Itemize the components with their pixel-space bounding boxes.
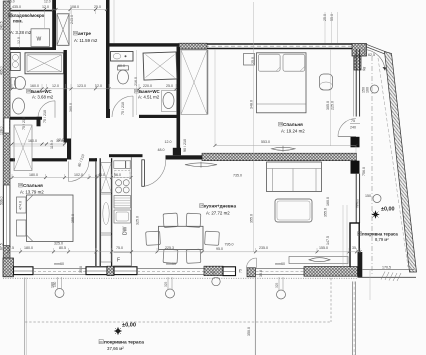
- bath1 step wall: [37, 117, 41, 127]
- svg-text:62,5: 62,5: [368, 53, 375, 57]
- svg-text:кухня+дневна: кухня+дневна: [204, 204, 236, 209]
- svg-text:60.0: 60.0: [118, 64, 125, 68]
- wall: hatched segment over bath2/bedroom1: [179, 43, 207, 49]
- svg-text:складово/мокро: складово/мокро: [9, 13, 45, 18]
- window 2: [86, 267, 107, 275]
- svg-text:48.0: 48.0: [158, 148, 165, 152]
- dining table: [146, 213, 220, 263]
- svg-text:355.0: 355.0: [71, 214, 75, 223]
- wall: left outer hatched: [3, 1, 10, 277]
- svg-text:325.0: 325.0: [54, 242, 63, 246]
- svg-text:75: 75: [239, 269, 243, 273]
- room number tags: [8, 13, 361, 344]
- svg-text:170,5: 170,5: [382, 266, 391, 270]
- label: terrace bottom: [104, 323, 144, 352]
- svg-text:98: 98: [362, 67, 367, 72]
- bottom wall band y267-276: [3, 258, 358, 278]
- svg-text:A: 11.59 m2: A: 11.59 m2: [74, 38, 98, 43]
- svg-text:08: 08: [358, 232, 362, 236]
- svg-text:243.0: 243.0: [70, 15, 74, 24]
- kitchen counter: [114, 157, 132, 266]
- bedroom1: bed: [257, 53, 307, 113]
- north arrow right: [371, 210, 379, 218]
- svg-text:A: 19.24 m2: A: 19.24 m2: [281, 129, 305, 134]
- svg-text:25.0: 25.0: [94, 5, 101, 9]
- wall: bedroom1 top (double line with dashed core): [179, 44, 352, 49]
- dashed projection on lower terrace: [25, 278, 331, 322]
- label: storage: [9, 13, 45, 35]
- svg-text:756.0: 756.0: [362, 167, 366, 176]
- svg-text:150: 150: [365, 194, 371, 198]
- svg-text:Баня+WC: Баня+WC: [139, 89, 161, 94]
- svg-text:235.0: 235.0: [259, 246, 268, 250]
- svg-text:35.0: 35.0: [259, 270, 263, 277]
- svg-text:305.0: 305.0: [326, 101, 330, 110]
- bedroom2: bed: [27, 195, 74, 242]
- hatched pier bottom-left: [3, 258, 14, 277]
- svg-text:35: 35: [352, 246, 356, 250]
- svg-text:46.0: 46.0: [98, 173, 105, 177]
- label: bedroom1: [281, 122, 305, 134]
- svg-text:25.0: 25.0: [166, 84, 173, 88]
- wall: living top kitchen-side: [109, 154, 143, 157]
- bath1: tub oval: [13, 98, 25, 114]
- svg-text:80.5: 80.5: [59, 246, 66, 250]
- svg-text:75 / 210: 75 / 210: [121, 102, 125, 115]
- wall: bath2 bottom: [139, 115, 180, 118]
- wall: bath2 left lower stub: [106, 109, 110, 118]
- rotated text left outer edge: [0, 21, 4, 250]
- svg-text:A: 13.79 m2: A: 13.79 m2: [20, 190, 44, 195]
- sofa: [267, 162, 322, 192]
- svg-text:240: 240: [350, 126, 356, 130]
- bedroom1: lamp lens on wall: [272, 146, 296, 152]
- dashed roof lines on right terrace: [372, 56, 408, 276]
- svg-text:75 / 210: 75 / 210: [43, 110, 47, 123]
- svg-text:07: 07: [9, 13, 13, 17]
- svg-text:mm60: mm60: [275, 262, 285, 266]
- svg-text:mm60: mm60: [54, 262, 64, 266]
- svg-text:95.0: 95.0: [216, 247, 223, 251]
- svg-text:795.0: 795.0: [225, 243, 234, 247]
- shaft X-box in antre: [57, 14, 69, 46]
- svg-text:F: F: [117, 258, 120, 264]
- hatched pier 3: [204, 266, 223, 275]
- living door from hall: leaf + arc: [142, 160, 166, 187]
- svg-text:147.5: 147.5: [326, 236, 330, 245]
- hatched pier 2: [107, 266, 114, 275]
- svg-text:покривна тераса: покривна тераса: [362, 232, 398, 237]
- svg-text:90 / 210: 90 / 210: [183, 139, 187, 152]
- wall: storage bottom: [10, 47, 56, 50]
- svg-text:15.0: 15.0: [79, 266, 83, 273]
- svg-text:160.0: 160.0: [28, 139, 37, 143]
- wall: living/bedroom1 hatched band: [202, 153, 357, 161]
- svg-text:119.0: 119.0: [50, 140, 54, 149]
- svg-text:Спальня: Спальня: [23, 183, 43, 188]
- svg-text:mm60: mm60: [356, 199, 360, 208]
- bath2: door arc: [112, 96, 133, 117]
- svg-text:180: 180: [53, 281, 57, 287]
- railing 2: [137, 268, 204, 274]
- extension lines from dim rows: [8, 10, 360, 254]
- svg-text:474.0: 474.0: [19, 201, 23, 210]
- bath2: wc right: [162, 91, 177, 112]
- lower terrace boundary lines: [25, 277, 356, 355]
- bath2: shower: [143, 52, 177, 80]
- svg-text:75.0: 75.0: [116, 246, 123, 250]
- ticks row y251.8: [7, 250, 362, 253]
- svg-text:03: 03: [279, 122, 283, 126]
- wall: living top step near door: [166, 155, 203, 159]
- svg-text:12.0: 12.0: [95, 84, 102, 88]
- bath1: vanity: [11, 53, 21, 71]
- wall: bath1 bottom + step: [10, 117, 42, 120]
- svg-text:05: 05: [27, 89, 31, 93]
- long construction thin lines: [12, 0, 370, 300]
- hood dashed: [115, 171, 131, 178]
- bedroom2: door arc: [69, 161, 90, 181]
- upper terrace bottom edge: [359, 269, 416, 281]
- svg-text:01: 01: [74, 31, 78, 35]
- terrace door in living right wall: [350, 223, 359, 268]
- svg-text:325.0: 325.0: [136, 216, 140, 225]
- top slanted edge: [365, 44, 386, 54]
- svg-text:360.0: 360.0: [69, 103, 73, 112]
- wall: bedroom2 top with door opening: [10, 139, 97, 162]
- north arrow bottom: [114, 327, 122, 335]
- svg-text:225.0: 225.0: [331, 101, 335, 110]
- svg-text:25.0: 25.0: [251, 57, 255, 64]
- label: bedroom2: [20, 183, 44, 195]
- svg-text:355.0: 355.0: [324, 208, 328, 217]
- wall: bath2 top: [110, 43, 180, 46]
- svg-text:160.0: 160.0: [30, 84, 39, 88]
- window 3: [114, 267, 137, 275]
- svg-text:±0,00: ±0,00: [122, 323, 136, 329]
- dotted ground strip under bottom wall: [3, 277, 358, 279]
- burners: [116, 180, 122, 186]
- wall: kitchen/closet divider: [111, 158, 113, 266]
- svg-text:37,66 м²: 37,66 м²: [107, 346, 124, 351]
- svg-text:75: 75: [351, 119, 355, 123]
- columns circles: [371, 85, 379, 93]
- svg-text:350.0: 350.0: [247, 327, 251, 336]
- bedroom2: nightstands: [17, 197, 27, 213]
- svg-text:180.0: 180.0: [24, 246, 33, 250]
- svg-text:Баня+WC: Баня+WC: [31, 89, 53, 94]
- bedroom1: nightstand round right: [320, 74, 333, 90]
- dimension tick marks: [7, 8, 362, 253]
- wall: right wall piers (black): [351, 137, 360, 148]
- bath1: shower: [25, 53, 64, 74]
- hatched pier 4 small: [247, 268, 256, 277]
- svg-text:55.0: 55.0: [330, 14, 334, 21]
- svg-text:536.0: 536.0: [0, 196, 4, 205]
- svg-text:160.0: 160.0: [326, 197, 330, 206]
- svg-text:05.0: 05.0: [8, 0, 15, 4]
- ticks row y88.8: [11, 87, 178, 90]
- bath2: vanity with sink: [111, 52, 134, 62]
- terrace door arc bottom wall: [247, 258, 257, 268]
- wall: bedroom2 right (double): [96, 158, 100, 266]
- label: kitchen-living: [204, 204, 236, 216]
- sink basin: [114, 210, 131, 223]
- storage: washing machine: [31, 29, 50, 47]
- wall: bottom-right corner: [358, 252, 363, 278]
- ticks bedroom1 553 row: [214, 144, 358, 147]
- svg-text:DW: DW: [123, 226, 129, 235]
- bedroom1: nightstand left: [244, 54, 255, 66]
- svg-text:220.0: 220.0: [143, 84, 152, 88]
- downpipe stems and labels: [53, 270, 283, 290]
- svg-text:Спальня: Спальня: [283, 122, 303, 127]
- ticks top row y9.5: [9, 8, 109, 11]
- svg-text:67.5: 67.5: [0, 243, 4, 250]
- closet column: X box: [101, 163, 111, 193]
- svg-text:пом.: пом.: [13, 19, 23, 24]
- svg-text:12.0: 12.0: [17, 37, 21, 44]
- bath2: toilet: [118, 66, 129, 84]
- window 1: [14, 267, 34, 275]
- svg-text:антре: антре: [78, 31, 91, 36]
- svg-text:8,79 м²: 8,79 м²: [375, 237, 389, 242]
- bath1: door arc: [38, 101, 55, 118]
- window 4 / door: [223, 267, 236, 276]
- right slanted outer wall band: [365, 44, 417, 272]
- bath1: toilet: [11, 77, 26, 90]
- living room: vent lens on wall: [185, 162, 217, 168]
- svg-text:12.0: 12.0: [44, 0, 51, 4]
- top-right terrace door arc with arrow: [364, 50, 386, 71]
- top edge cut text fragments: [8, 0, 51, 4]
- ticks row y144: [11, 143, 67, 146]
- svg-text:56.0: 56.0: [114, 173, 121, 177]
- ticks row y177.6: [11, 176, 133, 179]
- svg-text:325: 325: [275, 282, 279, 288]
- svg-text:325: 325: [164, 281, 168, 287]
- label: antre: [74, 31, 98, 43]
- svg-text:216.0: 216.0: [134, 77, 138, 86]
- svg-text:355.0: 355.0: [250, 214, 254, 223]
- label: bath1: [31, 89, 54, 100]
- tv bench: [289, 257, 348, 264]
- label: bath2: [138, 89, 161, 100]
- bedroom1: closet X: [181, 50, 208, 115]
- sink top box: [114, 161, 126, 169]
- svg-text:12.0: 12.0: [52, 84, 59, 88]
- svg-text:12.0: 12.0: [57, 138, 64, 142]
- svg-text:W: W: [37, 37, 42, 43]
- bedroom1: door arc right wall: [338, 119, 356, 137]
- svg-text:75 / 210: 75 / 210: [22, 117, 26, 130]
- wall: storage top: [10, 10, 56, 12]
- wall: bedroom1 right (thin double): [353, 49, 359, 223]
- svg-text:435.0: 435.0: [12, 5, 21, 9]
- svg-text:покривна тераса: покривна тераса: [104, 341, 144, 346]
- svg-text:150: 150: [212, 270, 216, 276]
- railing 1: [33, 268, 86, 274]
- svg-text:155.0: 155.0: [319, 246, 328, 250]
- svg-text:735.0: 735.0: [233, 174, 242, 178]
- svg-text:04: 04: [200, 204, 204, 208]
- svg-text:A: 27.72 m2: A: 27.72 m2: [206, 211, 230, 216]
- svg-text:348.0: 348.0: [250, 100, 254, 109]
- svg-text:±0,00: ±0,00: [381, 207, 394, 213]
- svg-text:09: 09: [99, 340, 103, 344]
- wall: storage right / antre left: [52, 0, 56, 50]
- svg-text:06: 06: [19, 183, 23, 187]
- svg-text:435.0: 435.0: [0, 66, 4, 75]
- svg-text:mm60: mm60: [166, 262, 176, 266]
- bedroom2: wardrobe X left: [14, 125, 32, 171]
- svg-text:225.3: 225.3: [165, 246, 174, 250]
- svg-text:A: 3.68 m2: A: 3.68 m2: [32, 95, 54, 100]
- svg-text:160: 160: [366, 87, 370, 93]
- svg-text:553.0: 553.0: [261, 140, 270, 144]
- label: terrace right: [362, 207, 398, 243]
- svg-text:A: 3.28 m2: A: 3.28 m2: [10, 30, 32, 35]
- oven lined: [114, 196, 131, 209]
- railing 3: [256, 268, 305, 274]
- closet column: tall cabinet with oval: [101, 194, 111, 262]
- coffee table: [275, 199, 312, 222]
- svg-text:123.0: 123.0: [77, 84, 86, 88]
- svg-text:102.0: 102.0: [74, 173, 83, 177]
- svg-text:12.0: 12.0: [165, 140, 172, 144]
- wall: top-right corner hatched block: [352, 44, 367, 57]
- hatched pier 5 long: [304, 267, 358, 277]
- svg-text:240.5: 240.5: [0, 21, 4, 30]
- wall: bath1 right: [64, 50, 67, 142]
- svg-text:A: 4.51 m2: A: 4.51 m2: [138, 95, 160, 100]
- wall: bath2 right: [177, 47, 181, 154]
- wall: antre right: [106, 0, 110, 113]
- chairs: [163, 213, 178, 227]
- svg-text:180.0: 180.0: [29, 173, 38, 177]
- window glazing center lines: [14, 270, 236, 273]
- svg-text:128.0: 128.0: [0, 126, 4, 135]
